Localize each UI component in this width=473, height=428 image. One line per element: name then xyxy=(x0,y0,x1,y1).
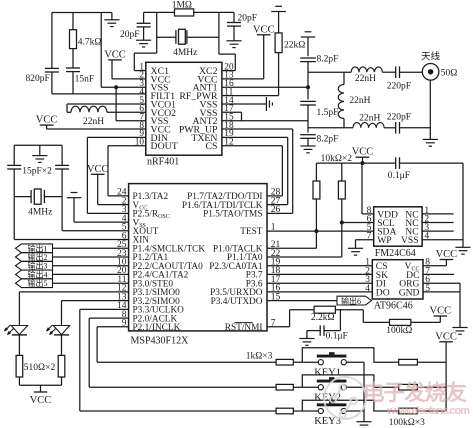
wire right 15pF leads xyxy=(61,145,63,165)
wire output5 to MSP430 xyxy=(53,282,129,284)
wire 1k to KEY3 xyxy=(293,410,318,412)
LED D2 xyxy=(47,325,70,335)
svg-text:输出5: 输出5 xyxy=(28,278,48,288)
wire left 20pF to ground xyxy=(143,27,145,40)
svg-text:VCC: VCC xyxy=(435,331,457,342)
svg-text:VCC: VCC xyxy=(253,24,275,35)
wire VCO1 hook down xyxy=(66,104,68,112)
VCC power symbol (LEDs) xyxy=(30,392,52,406)
svg-text:CS: CS xyxy=(206,141,218,152)
wire KEY2 bypass loop xyxy=(302,375,398,387)
resistor 1kohm (1) xyxy=(276,359,293,365)
ground (antenna) xyxy=(423,139,438,146)
wire VCO2 pin6 xyxy=(107,111,146,113)
svg-text:P3.4/UTXDO: P3.4/UTXDO xyxy=(211,297,263,307)
svg-text:输出6: 输出6 xyxy=(341,296,361,306)
svg-text:电子发烧友: 电子发烧友 xyxy=(363,380,467,405)
svg-text:15nF: 15nF xyxy=(75,75,95,85)
wire 2.2k output xyxy=(335,309,363,311)
wire KEY1 bypass loop xyxy=(302,348,398,363)
wire ORG/GND to ground xyxy=(459,283,461,327)
wire output1 to MSP430 xyxy=(53,247,129,249)
wire resistor2 bottom xyxy=(61,377,63,385)
wire output3 to MSP430 xyxy=(53,265,129,267)
ground inverted (MSP430 Vss) xyxy=(67,193,82,198)
wire 100k (2) to VCC rail xyxy=(417,386,446,388)
wire VCC stub xyxy=(362,157,364,163)
wire LED1 to resistor xyxy=(18,335,20,356)
wire 820pF top lead xyxy=(51,13,53,69)
svg-text:FM24C64: FM24C64 xyxy=(375,248,416,259)
resistor 510ohm (2) xyxy=(58,355,65,377)
svg-text:DO: DO xyxy=(376,287,390,298)
inductor 22nH (RF bottom) xyxy=(353,123,384,128)
capacitor 1.5pF xyxy=(300,101,316,105)
svg-text:1MΩ: 1MΩ xyxy=(172,0,192,10)
svg-text:输出2: 输出2 xyxy=(28,252,48,262)
svg-text:22kΩ: 22kΩ xyxy=(284,41,305,51)
wire output4 to MSP430 xyxy=(53,273,129,275)
svg-text:DOUT: DOUT xyxy=(151,141,178,152)
wire WP to ground xyxy=(356,239,374,241)
wire 0.1uF left to ground xyxy=(307,330,320,332)
svg-text:VCC: VCC xyxy=(30,395,52,406)
wire DOUT down to MSP430 P1.3 xyxy=(108,145,146,147)
watermark logo circle xyxy=(324,377,366,419)
svg-text:820pF: 820pF xyxy=(26,74,50,84)
wire P3.1/SIMO0 to LED1 xyxy=(19,291,128,293)
svg-text:220pF: 220pF xyxy=(387,81,411,91)
wire PWR_UP to MSP430 P1.5 xyxy=(222,128,293,130)
svg-text:VCC: VCC xyxy=(352,147,374,158)
svg-text:VSS: VSS xyxy=(401,235,419,246)
wire 220pF to antenna xyxy=(400,71,423,73)
ground (matching network) xyxy=(300,146,315,153)
capacitor 15pF (left) xyxy=(7,165,21,169)
svg-text:22nH: 22nH xyxy=(83,117,104,127)
wire left 15pF leads xyxy=(13,145,15,165)
wire rail ground stub xyxy=(39,145,41,155)
ground (keys) xyxy=(356,422,371,428)
svg-text:20pF: 20pF xyxy=(238,13,258,23)
svg-text:VCC: VCC xyxy=(430,306,452,317)
svg-text:MSP430F12X: MSP430F12X xyxy=(131,336,190,347)
wire AT Vcc to VCC xyxy=(423,265,446,267)
wire 1k to KEY1 xyxy=(293,361,318,363)
wire VCO1 pin5 xyxy=(67,103,146,105)
wire Vss pin4 xyxy=(73,198,75,222)
node junction SDA xyxy=(314,229,318,233)
node junction ANT1 xyxy=(306,85,310,89)
ground (15pF rail) xyxy=(32,156,47,163)
inductor 22nH (vertical) xyxy=(343,72,345,84)
wire VSS pin17 jog xyxy=(222,111,242,113)
resistor 1kohm (2) xyxy=(276,384,293,390)
svg-text:2.2kΩ: 2.2kΩ xyxy=(311,313,335,323)
capacitor 220pF (top) xyxy=(396,66,400,78)
wire 8.2pF bottom to ground xyxy=(307,138,309,146)
capacitor 20pF (left) xyxy=(137,23,151,27)
capacitor 0.1uF (FM24C64) xyxy=(396,157,400,169)
svg-text:1.5pF: 1.5pF xyxy=(317,108,339,118)
net tag output4 (shuchu4) xyxy=(16,270,53,279)
capacitor 20pF (right) xyxy=(227,23,241,27)
ground (RST cap) xyxy=(299,339,314,346)
svg-text:8.2pF: 8.2pF xyxy=(317,55,339,65)
wire right 20pF stub xyxy=(233,12,235,22)
wire 4.7k to 15nF xyxy=(72,49,74,68)
switch KEY1 xyxy=(318,360,346,365)
resistor 1kohm (3) xyxy=(276,408,293,414)
svg-text:AT96C46: AT96C46 xyxy=(374,301,413,312)
svg-text:20pF: 20pF xyxy=(120,30,140,40)
wire LED common bottom xyxy=(19,384,61,386)
wire GND pin5 xyxy=(423,291,460,293)
wire KEY2 right contact to ground rail xyxy=(346,386,364,388)
VCC power symbol (MSP430 Vcc) xyxy=(87,164,109,175)
resistor 510ohm (1) xyxy=(16,355,23,377)
wire SK row xyxy=(267,273,372,275)
wire matching column mid xyxy=(307,87,309,99)
capacitor 15pF (right) xyxy=(55,165,69,169)
svg-text:22nH: 22nH xyxy=(355,74,376,84)
wire DO row xyxy=(267,291,372,293)
wire DI row xyxy=(267,282,372,284)
antenna connector 50ohm xyxy=(422,64,439,81)
VCC power symbol (RST pullup) xyxy=(430,306,452,317)
wire DC pin7 xyxy=(423,273,454,275)
svg-text:220pF: 220pF xyxy=(387,113,411,123)
ground (WP) xyxy=(348,248,363,255)
switch KEY3 xyxy=(318,408,346,413)
ground (right 20pF) xyxy=(226,41,241,48)
switch KEY2 xyxy=(318,385,346,390)
IC U4 AT96C46 xyxy=(372,260,423,299)
capacitor 8.2pF (top) xyxy=(300,58,316,62)
net tag output6 (shuchu6) xyxy=(337,296,372,305)
svg-text:输出3: 输出3 xyxy=(28,261,48,271)
capacitor 0.1uF (RST) xyxy=(320,325,324,335)
wire output2 to MSP430 xyxy=(53,256,129,258)
svg-text:输出1: 输出1 xyxy=(28,243,48,253)
net tag output2 (shuchu2) xyxy=(16,253,53,262)
VCC power symbol (nRF401 pin 2) xyxy=(104,49,126,60)
LED D1 xyxy=(4,325,27,335)
wire KEY1 right contact to ground rail xyxy=(346,361,364,363)
wire VSS pin7 xyxy=(116,120,146,122)
wire XIN xyxy=(14,239,128,241)
wire right ground rail vertical xyxy=(462,163,464,247)
wire MSP pin to KEY3 xyxy=(80,308,129,310)
wire MSP pin to KEY1 xyxy=(97,326,129,328)
wire 22k to RF_PWR xyxy=(278,53,280,96)
node junction SCL xyxy=(340,221,344,225)
svg-text:0.1μF: 0.1μF xyxy=(388,171,410,181)
node junction VCC rail xyxy=(361,161,365,165)
ground (top-left rail) xyxy=(104,20,119,27)
svg-text:1kΩ×3: 1kΩ×3 xyxy=(246,352,273,362)
svg-text:100kΩ×3: 100kΩ×3 xyxy=(389,418,425,428)
VCC power symbol (pullups) xyxy=(352,147,374,158)
VCC power symbol (keys) xyxy=(435,331,457,342)
svg-text:10: 10 xyxy=(135,138,145,148)
wire FILT1 rail xyxy=(52,93,146,95)
wire SDA to P1.0/TACLK xyxy=(315,231,317,248)
wire CS to MSP430 P1.7 xyxy=(222,145,283,147)
net tag output3 (shuchu3) xyxy=(16,261,53,270)
capacitor 15nF xyxy=(66,68,80,72)
wire TXEN to MSP430 P1.6 xyxy=(222,136,288,138)
wire 8.2pF top lead xyxy=(307,37,309,56)
wire 820pF bottom lead xyxy=(51,72,53,94)
ground inverted (8.2pF top) xyxy=(301,32,316,37)
wire VDD pin8 xyxy=(362,213,374,215)
inductor 22nH (VCO) xyxy=(71,106,107,112)
capacitor 8.2pF (bottom) xyxy=(300,135,316,139)
wire NC pins xyxy=(422,213,454,215)
wire CS row xyxy=(267,265,372,267)
IC U1 nRF401 xyxy=(146,62,222,155)
resistor 10kohm (left) xyxy=(315,163,317,181)
wire DIN down to MSP430 P2.5 xyxy=(87,136,145,138)
svg-text:15pF×2: 15pF×2 xyxy=(22,167,52,177)
wire KEY3 bypass loop xyxy=(302,400,398,411)
wire right 20pF to ground xyxy=(233,26,235,41)
IC U2 MSP430F12X xyxy=(129,184,267,331)
ground (FM24C64 VSS) xyxy=(455,247,470,254)
svg-text:GND: GND xyxy=(399,287,420,298)
wire ORG pin6 xyxy=(423,282,460,284)
wire 100k (3) to VCC rail xyxy=(417,410,446,412)
wire keys VCC rail xyxy=(445,342,447,411)
wire SCL to P1.1/TA0 xyxy=(341,223,343,258)
ground sideways (VSS pin14) xyxy=(266,97,272,111)
wire VSS pin14 to side ground xyxy=(222,103,267,105)
capacitor 220pF (bottom) xyxy=(396,122,400,134)
resistor 100kohm (3) xyxy=(399,408,418,414)
svg-text:VCC: VCC xyxy=(36,115,58,126)
svg-text:22nH: 22nH xyxy=(359,113,380,123)
svg-text:22nH: 22nH xyxy=(349,96,370,106)
wire 100k (1) to VCC rail xyxy=(417,361,446,363)
wire left 20pF stub xyxy=(143,12,145,23)
resistor 4.7kohm xyxy=(72,13,74,30)
capacitor 820pF xyxy=(45,68,59,72)
wire row2 to 220pF xyxy=(384,127,396,129)
net tag output1 (shuchu1) xyxy=(16,244,53,253)
wire XC2 connection xyxy=(218,12,220,54)
wire VSS pin3 up to rail xyxy=(100,13,102,88)
svg-text:天线: 天线 xyxy=(421,51,441,63)
wire RST/NMI xyxy=(267,326,290,328)
resistor 2.2kohm xyxy=(314,306,335,313)
wire 15nF bottom lead xyxy=(72,72,74,94)
svg-text:4.7kΩ: 4.7kΩ xyxy=(78,38,102,48)
wire top-left rail ground stub xyxy=(111,13,113,20)
resistor 100kohm (2) xyxy=(399,384,418,390)
wire VCC to pin13 xyxy=(263,35,265,79)
svg-text:KEY1: KEY1 xyxy=(314,367,341,378)
wire top rail XC1-XC2 xyxy=(144,11,175,13)
ground (left 20pF) xyxy=(136,40,151,47)
svg-text:TEST: TEST xyxy=(240,227,263,237)
wire vertical inductor bottom xyxy=(343,119,345,128)
svg-text:输出4: 输出4 xyxy=(28,269,48,279)
wire XOUT xyxy=(62,230,129,232)
resistor 100kohm (RST) xyxy=(390,319,411,325)
wire 22k top xyxy=(278,12,280,33)
svg-text:100kΩ: 100kΩ xyxy=(386,326,412,336)
wire RF row2 xyxy=(308,127,353,129)
svg-text:26: 26 xyxy=(271,205,281,215)
wire ANT1 to matching network xyxy=(222,86,308,88)
wire 15pF rail xyxy=(14,144,62,146)
wire VSS pin4 to ground rail xyxy=(422,239,463,241)
svg-text:510Ω×2: 510Ω×2 xyxy=(24,363,56,373)
wire antenna to ground xyxy=(429,80,431,139)
svg-text:P1.5/TAO/TMS: P1.5/TAO/TMS xyxy=(203,210,262,220)
resistor 10kohm (right) xyxy=(341,163,343,181)
VCC power symbol (nRF401 pin 13) xyxy=(253,24,275,35)
wire keys ground rail xyxy=(363,362,365,422)
wire ANT2 row xyxy=(222,120,308,122)
wire matching column lower xyxy=(307,105,309,133)
wire to VCC (LED) xyxy=(40,385,42,392)
wire matching column upper xyxy=(307,62,309,88)
svg-text:VCC: VCC xyxy=(436,249,458,260)
wire VCC rail (I2C pullups) xyxy=(316,162,395,164)
wire right 10k to SCL xyxy=(341,199,343,223)
wire left 10k to SDA/TEST xyxy=(315,199,317,231)
svg-text:4MHz: 4MHz xyxy=(28,207,52,217)
svg-text:0.1μF: 0.1μF xyxy=(326,332,348,342)
ground inverted (22k top) xyxy=(271,6,286,11)
wire row1 to 220pF xyxy=(382,71,395,73)
wire VSS pin3 xyxy=(101,86,146,88)
svg-text:WP: WP xyxy=(377,235,391,246)
wire SCL xyxy=(342,222,374,224)
crystal Y2 4MHz xyxy=(31,189,44,204)
wire LED2 to resistor xyxy=(61,335,63,356)
wire crystal row xyxy=(157,36,176,38)
net tag output5 (shuchu5) xyxy=(16,279,53,288)
wire P3.2/SIMO0 to LED2 xyxy=(62,300,129,302)
resistor R 1Mohm xyxy=(175,9,194,16)
svg-text:RST/NMI: RST/NMI xyxy=(225,323,263,333)
wire VSS3-VSS7 vertical xyxy=(115,87,117,120)
wire TEST-SDA xyxy=(267,230,374,232)
inductor 22nH (RF top) xyxy=(351,67,382,72)
VCC power symbol (nRF401 pin 8) xyxy=(36,115,58,126)
resistor 22kohm xyxy=(275,33,282,53)
svg-text:10kΩ×2: 10kΩ×2 xyxy=(321,154,353,164)
svg-text:P2.1/INCLK: P2.1/INCLK xyxy=(133,323,181,333)
crystal Y1 4MHz xyxy=(176,29,187,44)
wire VCC to MSP Vcc xyxy=(97,174,99,204)
wire 0.1uF right to RST node xyxy=(324,330,340,332)
wire 1k to KEY2 xyxy=(293,386,318,388)
wire MSP pin to KEY2 xyxy=(89,317,128,319)
svg-text:nRF401: nRF401 xyxy=(147,157,179,168)
svg-text:www.elecfans.com: www.elecfans.com xyxy=(386,405,470,417)
wire XC1 connection xyxy=(156,12,158,53)
wire top-left rail xyxy=(52,12,112,14)
wire 100k to VCC xyxy=(411,321,441,323)
svg-text:4MHz: 4MHz xyxy=(173,48,197,58)
svg-text:VCC: VCC xyxy=(87,164,109,175)
IC U3 FM24C64 xyxy=(374,207,422,246)
resistor 100kohm (1) xyxy=(399,359,418,365)
wire VCC to pin2 xyxy=(111,60,113,79)
wire resistor1 bottom xyxy=(18,377,20,385)
ground (AT96C46) xyxy=(452,328,467,335)
wire RF row1 xyxy=(308,71,351,73)
VCC power symbol (AT96C46) xyxy=(436,249,458,260)
wire 220pF row2 to antenna ground xyxy=(400,127,431,129)
svg-text:8.2pF: 8.2pF xyxy=(317,135,339,145)
svg-text:50Ω: 50Ω xyxy=(441,69,458,79)
wire P3.4/UTXDO to output6 xyxy=(267,300,337,302)
wire crystal2 leads xyxy=(14,196,31,198)
wire KEY3 right contact to ground rail xyxy=(346,410,364,412)
node junction VSS3 xyxy=(114,85,118,89)
svg-text:VCC: VCC xyxy=(104,49,126,60)
wire VCC to pin8 xyxy=(46,125,48,129)
svg-text:4: 4 xyxy=(365,284,370,294)
